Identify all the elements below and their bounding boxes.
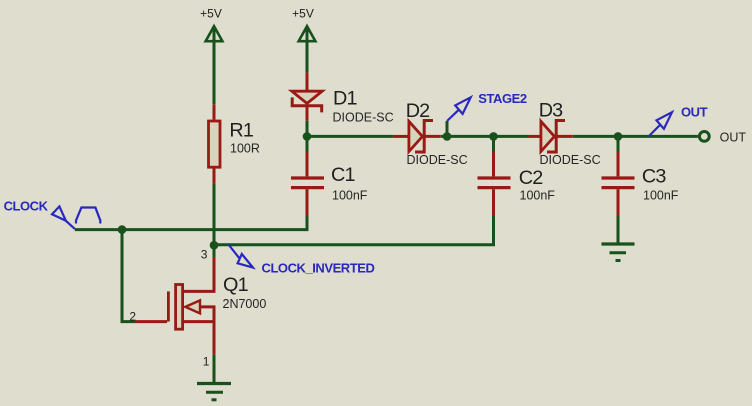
svg-text:100nF: 100nF (332, 188, 368, 202)
svg-text:C3: C3 (642, 165, 666, 187)
svg-text:STAGE2: STAGE2 (478, 91, 527, 106)
svg-text:R1: R1 (229, 120, 253, 142)
svg-text:100nF: 100nF (520, 189, 556, 203)
svg-text:1: 1 (203, 354, 210, 368)
svg-text:D3: D3 (539, 99, 563, 121)
svg-text:+5V: +5V (292, 6, 314, 20)
svg-text:C1: C1 (331, 164, 355, 186)
svg-text:D2: D2 (406, 100, 430, 122)
svg-text:100nF: 100nF (643, 189, 679, 203)
svg-text:3: 3 (201, 247, 208, 261)
svg-text:+5V: +5V (200, 6, 222, 20)
svg-text:D1: D1 (333, 88, 357, 110)
svg-text:100R: 100R (230, 141, 260, 155)
svg-text:Q1: Q1 (223, 274, 249, 296)
svg-text:DIODE-SC: DIODE-SC (333, 110, 394, 124)
svg-text:2N7000: 2N7000 (223, 297, 267, 311)
svg-text:OUT: OUT (681, 104, 708, 119)
svg-text:C2: C2 (519, 167, 543, 189)
svg-text:DIODE-SC: DIODE-SC (407, 153, 468, 167)
svg-text:CLOCK: CLOCK (4, 199, 49, 214)
svg-text:CLOCK_INVERTED: CLOCK_INVERTED (262, 261, 375, 276)
svg-text:DIODE-SC: DIODE-SC (540, 153, 601, 167)
svg-text:OUT: OUT (720, 131, 747, 145)
svg-text:2: 2 (129, 309, 136, 323)
